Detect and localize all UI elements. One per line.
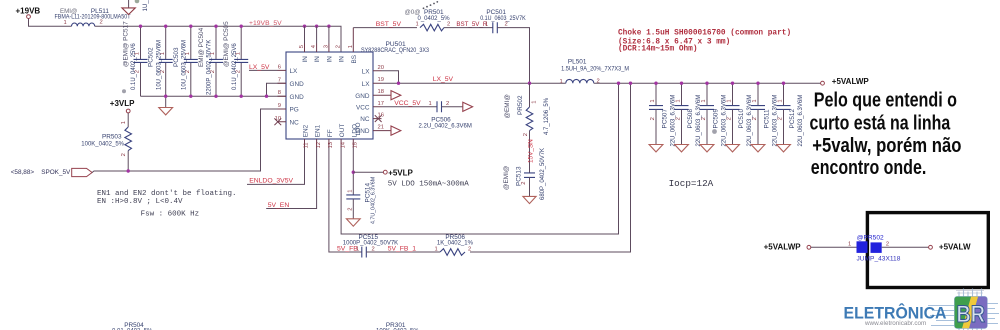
svg-text:GND: GND xyxy=(290,81,305,88)
svg-text:+5valw, porém não: +5valw, porém não xyxy=(812,135,961,157)
svg-text:2: 2 xyxy=(521,182,527,185)
pin names left LX GND GND PG NC xyxy=(290,68,305,126)
svg-text:18: 18 xyxy=(378,89,384,95)
svg-text:2: 2 xyxy=(752,117,758,120)
svg-text:PL501: PL501 xyxy=(568,59,587,66)
svg-text:@PR502: @PR502 xyxy=(857,235,884,242)
svg-text:1: 1 xyxy=(347,190,353,193)
note EN floating xyxy=(97,190,237,219)
svg-text:+5VALW: +5VALW xyxy=(939,243,971,252)
svg-text:0_0402_5%: 0_0402_5% xyxy=(418,16,451,22)
svg-text:PR501: PR501 xyxy=(424,9,444,16)
pin names bottom EN2 EN1 FF OUT LDO rotated xyxy=(303,124,359,138)
svg-text:GND: GND xyxy=(290,94,305,101)
svg-text:1: 1 xyxy=(676,99,682,102)
svg-text:1: 1 xyxy=(121,121,127,124)
svg-text:1: 1 xyxy=(727,99,733,102)
svg-text:PC510: PC510 xyxy=(738,109,745,129)
svg-text:+19VB: +19VB xyxy=(16,6,41,15)
right pin stubs 20,19,18,17,16,21 xyxy=(373,71,391,131)
svg-text:+3VLP: +3VLP xyxy=(110,99,135,108)
svg-text:2: 2 xyxy=(336,45,342,48)
svg-text:LX: LX xyxy=(362,68,371,75)
svg-text:2: 2 xyxy=(447,22,450,28)
svg-text:2.2U_0402_6.3V6M: 2.2U_0402_6.3V6M xyxy=(419,123,472,129)
junction BST / snubber xyxy=(528,82,531,85)
svg-text:Iocp=12A: Iocp=12A xyxy=(669,178,714,189)
no-connect X on pin 16 xyxy=(375,115,382,122)
ground arrow after PC506 xyxy=(463,102,473,111)
svg-text:2: 2 xyxy=(650,117,656,120)
gray dot artifact near +3VLP xyxy=(122,89,126,93)
pin numbers 6-10 xyxy=(275,64,281,121)
ground PC509 xyxy=(700,145,714,152)
power node +3VLP xyxy=(110,99,135,113)
power node +5VALWP (jumper left) xyxy=(764,243,811,252)
wire EN2 to ENLDO_3V5V xyxy=(247,148,305,185)
resistor PR502 (snubber) xyxy=(504,83,550,173)
svg-text:1: 1 xyxy=(752,99,758,102)
svg-text:1: 1 xyxy=(848,242,851,248)
svg-text:2: 2 xyxy=(468,247,471,253)
svg-text:ENLDO_3V5V: ENLDO_3V5V xyxy=(249,178,293,185)
wire IN pin drops from bus xyxy=(305,26,329,43)
svg-text:6: 6 xyxy=(278,64,281,70)
junction FB sense xyxy=(629,82,632,85)
svg-text:@EMI@: @EMI@ xyxy=(504,94,511,118)
svg-text:1: 1 xyxy=(778,99,784,102)
svg-text:EN1: EN1 xyxy=(315,124,322,137)
resistor PR501 xyxy=(416,9,451,31)
junction dots ground bus xyxy=(164,95,268,98)
svg-text:<58,88>: <58,88> xyxy=(11,169,35,176)
svg-text:10U_0603_25V6M: 10U_0603_25V6M xyxy=(182,40,188,90)
svg-text:1: 1 xyxy=(348,45,354,48)
svg-text:VCC_5V: VCC_5V xyxy=(394,100,421,107)
svg-text:5V_EN: 5V_EN xyxy=(268,202,290,209)
capacitor PC511 xyxy=(751,82,779,147)
capacitor PC514 xyxy=(346,177,376,224)
inductor PL511 xyxy=(55,8,131,26)
svg-text:1: 1 xyxy=(429,101,432,107)
svg-text:encontro onde.: encontro onde. xyxy=(811,157,927,179)
svg-text:NC: NC xyxy=(360,116,370,123)
wire +19VB_5V bus xyxy=(95,26,341,52)
svg-text:@EMI@ PC505: @EMI@ PC505 xyxy=(223,21,230,67)
svg-text:21: 21 xyxy=(378,125,384,131)
note Choke (red) xyxy=(618,29,791,53)
svg-text:PG: PG xyxy=(290,107,299,114)
resistor PR503 xyxy=(81,113,131,171)
svg-text:10: 10 xyxy=(275,116,281,122)
pin numbers right xyxy=(378,65,384,131)
svg-text:+5VLP: +5VLP xyxy=(388,168,413,177)
svg-text:PC502: PC502 xyxy=(148,47,155,67)
gray dot artifact top-left xyxy=(135,0,140,3)
svg-text:IN: IN xyxy=(339,56,346,63)
wire jumper to +5VALW xyxy=(882,246,929,248)
svg-text:FF: FF xyxy=(327,129,334,137)
svg-text:2200P_0402_50V7K: 2200P_0402_50V7K xyxy=(207,40,213,95)
svg-text:@EMI@ PC517: @EMI@ PC517 xyxy=(123,21,130,67)
svg-text:LX: LX xyxy=(362,81,371,88)
gray dot artifact near PC509 xyxy=(712,129,717,134)
no-connect X on pin 10 xyxy=(274,118,281,125)
svg-text:5: 5 xyxy=(299,45,305,48)
svg-text:1: 1 xyxy=(650,99,656,102)
svg-text:2: 2 xyxy=(505,22,508,28)
svg-text:1U_: 1U_ xyxy=(142,0,149,12)
svg-text:Choke 1.5uH SH000016700 (commo: Choke 1.5uH SH000016700 (common part) xyxy=(618,29,791,37)
capacitor PC508 xyxy=(675,82,703,147)
svg-text:LDO: LDO xyxy=(351,124,358,137)
svg-text:1K_0402_1%: 1K_0402_1% xyxy=(437,240,474,246)
svg-text:LX: LX xyxy=(290,68,299,75)
svg-text:1: 1 xyxy=(416,22,419,28)
ground PC512 xyxy=(777,145,791,152)
svg-text:680P_0402_50V7K: 680P_0402_50V7K xyxy=(540,148,546,200)
svg-text:Fsw : 600K Hz: Fsw : 600K Hz xyxy=(141,211,200,219)
wire PC501 to LX node xyxy=(497,28,529,84)
svg-text:2: 2 xyxy=(676,117,682,120)
svg-text:2: 2 xyxy=(886,242,889,248)
power node +19VB xyxy=(16,6,41,18)
left pin stubs 6,7,8,9,10 xyxy=(278,70,287,121)
svg-text:0.1U_0402_25V6: 0.1U_0402_25V6 xyxy=(232,43,238,90)
svg-text:PC508: PC508 xyxy=(687,109,694,129)
svg-text:1.5UH_9A_20%_7X7X3_M: 1.5UH_9A_20%_7X7X3_M xyxy=(561,66,629,72)
power node +5VALW xyxy=(929,243,971,252)
highlight box (black) xyxy=(867,213,988,288)
svg-text:20: 20 xyxy=(378,65,384,71)
svg-text:9: 9 xyxy=(278,103,281,109)
svg-text:2: 2 xyxy=(347,208,353,211)
svg-text:7: 7 xyxy=(278,77,281,83)
svg-text:15V_SN: 15V_SN xyxy=(528,139,535,163)
capacitor PC507 xyxy=(649,82,677,147)
wire LDO pin to +5VLP xyxy=(352,148,354,195)
svg-text:14: 14 xyxy=(340,141,346,148)
svg-text:LX_5V: LX_5V xyxy=(433,76,454,83)
top pin stubs IN,IN,IN,IN,BS xyxy=(305,28,354,52)
svg-text:2: 2 xyxy=(446,101,449,107)
capacitor PC501 xyxy=(480,9,526,33)
port SPOK_5V xyxy=(41,168,92,176)
wire LX pin 20 link xyxy=(382,71,399,83)
svg-text:JUMP_43X118: JUMP_43X118 xyxy=(857,255,901,262)
svg-text:5V LDO 150mA~300mA: 5V LDO 150mA~300mA xyxy=(388,180,470,188)
ground PC508 xyxy=(675,145,689,152)
wire FB sense drop xyxy=(470,83,631,252)
svg-text:PC512: PC512 xyxy=(789,109,796,129)
svg-text:PC503: PC503 xyxy=(173,47,180,67)
wire LX output line xyxy=(382,82,566,84)
svg-text:0.1U_0402_25V6: 0.1U_0402_25V6 xyxy=(131,43,137,90)
svg-text:EMI@ PC504: EMI@ PC504 xyxy=(198,27,205,67)
ground arrow pin 18 xyxy=(391,91,401,100)
svg-text:2: 2 xyxy=(100,19,103,25)
svg-text:1: 1 xyxy=(701,99,707,102)
svg-text:GND: GND xyxy=(355,93,370,100)
capacitor PC512 xyxy=(777,82,805,147)
svg-text:Pelo que entendi o: Pelo que entendi o xyxy=(814,89,957,111)
svg-text:SY8288CRAC_QFN20_3X3: SY8288CRAC_QFN20_3X3 xyxy=(361,47,429,54)
svg-text:1: 1 xyxy=(356,247,359,253)
wire SPOK_5V to PG xyxy=(92,109,277,173)
power node +5VALWP (top right) xyxy=(821,77,870,86)
capacitor PC502 xyxy=(148,26,173,96)
svg-text:PC511: PC511 xyxy=(764,109,771,129)
wire +19VB node to PL511 pin 1 xyxy=(29,19,72,27)
jumper PR502 pads xyxy=(848,235,901,263)
top-left partial circuit: wire to ground xyxy=(128,0,130,8)
capacitor PC505 xyxy=(223,21,248,96)
svg-text:2: 2 xyxy=(523,133,529,136)
svg-text:EN1 and EN2 dont't be floating: EN1 and EN2 dont't be floating. xyxy=(97,190,237,198)
wire ground bus under input caps xyxy=(141,95,287,97)
ground PC511 xyxy=(751,145,765,152)
wire VCC pin 17 to PC506 xyxy=(382,106,438,108)
svg-text:PC507: PC507 xyxy=(662,109,669,129)
annotation text (Portuguese) xyxy=(810,89,962,178)
capacitor PC517 xyxy=(123,21,148,96)
svg-text:NC: NC xyxy=(290,119,300,126)
svg-text:PC501: PC501 xyxy=(486,9,506,16)
wire EN1 to 5V_EN xyxy=(266,148,316,209)
svg-text:19: 19 xyxy=(378,77,384,83)
junction OUT sense xyxy=(617,82,620,85)
svg-text:+19VB_5V: +19VB_5V xyxy=(249,20,282,27)
svg-text:EN2: EN2 xyxy=(303,124,310,137)
svg-text:PR502: PR502 xyxy=(517,95,524,115)
wire +5VALWP to jumper xyxy=(811,246,857,248)
svg-text:100K_0402_5%: 100K_0402_5% xyxy=(81,141,124,147)
op-amp / regulator U PU501 body xyxy=(286,52,373,139)
ground (snubber) xyxy=(523,196,536,203)
svg-text:8: 8 xyxy=(278,90,281,96)
ground PC510 xyxy=(726,145,740,152)
bottom pin stubs 11-15 xyxy=(305,139,354,148)
svg-text:IN: IN xyxy=(314,56,321,63)
logo chip icon xyxy=(928,289,999,330)
capacitor PC513 xyxy=(503,148,546,200)
ground PC507 xyxy=(649,145,663,152)
svg-text:curto está na linha: curto está na linha xyxy=(810,113,951,135)
svg-text:1: 1 xyxy=(435,247,438,253)
svg-text:+5VALWP: +5VALWP xyxy=(764,243,802,252)
inductor PL501 xyxy=(560,59,630,85)
wire +5VALWP output bus xyxy=(594,82,821,84)
svg-text:4.7_1206_5%: 4.7_1206_5% xyxy=(544,97,550,135)
ground arrow pin 21 xyxy=(391,126,401,135)
pin names right LX LX GND VCC NC GND xyxy=(355,68,370,135)
wire LX_5V stub left of chip xyxy=(249,69,278,71)
svg-text:2: 2 xyxy=(727,117,733,120)
svg-text:VCC: VCC xyxy=(356,104,370,111)
svg-text:5V_FB_1: 5V_FB_1 xyxy=(388,245,417,252)
ground (input cap bank) xyxy=(159,96,173,115)
partial label PR301 (cut at bottom) xyxy=(376,322,419,330)
wire PR501 to PC501 xyxy=(444,27,493,29)
svg-text:OUT: OUT xyxy=(339,124,346,138)
svg-text:2: 2 xyxy=(778,117,784,120)
partial label PR504 (cut at bottom) xyxy=(112,322,153,330)
wire to +5VLP node xyxy=(353,171,383,173)
ground (top-left partial) xyxy=(122,8,135,15)
wire OUT sense drop xyxy=(341,83,618,234)
resistor PR506 xyxy=(435,234,474,255)
svg-text:(DCR:14m~15m Ohm): (DCR:14m~15m Ohm) xyxy=(618,46,698,54)
svg-text:BR: BR xyxy=(957,301,986,328)
svg-text:www.eletronicabr.com: www.eletronicabr.com xyxy=(864,320,926,327)
svg-text:17: 17 xyxy=(378,101,384,107)
junction PR503 / SPOK xyxy=(127,169,130,172)
svg-text:BS: BS xyxy=(351,55,358,64)
capacitor PC503 xyxy=(173,26,198,96)
logo text ELETRONICA BR xyxy=(844,301,986,328)
svg-text:1: 1 xyxy=(560,79,563,85)
svg-text:IN: IN xyxy=(326,56,333,63)
power node +5VLP xyxy=(383,168,413,177)
dotted leader line xyxy=(423,1,439,9)
svg-text:1: 1 xyxy=(532,101,538,104)
svg-text:SPOK_5V: SPOK_5V xyxy=(41,169,71,176)
wire BS pin to BST network xyxy=(353,27,417,29)
pin names IN IN IN IN BS xyxy=(302,55,358,64)
capacitor PC515 xyxy=(343,234,440,258)
svg-text:3: 3 xyxy=(323,45,329,48)
svg-text:IN: IN xyxy=(302,56,309,63)
svg-text:PC509: PC509 xyxy=(713,109,720,129)
svg-text:+5VALWP: +5VALWP xyxy=(832,77,870,86)
svg-text:PR503: PR503 xyxy=(102,134,122,141)
ground PC514 xyxy=(346,219,360,226)
wire chip GND pin7 link xyxy=(267,83,287,96)
capacitor PC504 xyxy=(198,26,223,96)
svg-text:1: 1 xyxy=(485,22,488,28)
svg-text:4.7U_0402_6.3V6M: 4.7U_0402_6.3V6M xyxy=(371,177,377,224)
junction dots +19VB_5V bus xyxy=(139,25,331,28)
pin numbers 11-15 rotated xyxy=(304,141,359,148)
svg-text:2: 2 xyxy=(121,153,127,156)
svg-text:10U_0603_25V6M: 10U_0603_25V6M xyxy=(156,40,162,90)
capacitor PC510 xyxy=(726,82,754,147)
svg-text:LX_5V: LX_5V xyxy=(249,64,270,71)
capacitor PC509 xyxy=(700,82,728,147)
capacitor PC506 xyxy=(419,101,472,130)
wire FF to 5V_FB line xyxy=(329,148,362,253)
svg-text:2: 2 xyxy=(701,117,707,120)
junction LX pin20 xyxy=(397,82,400,85)
svg-text:1: 1 xyxy=(64,20,67,26)
svg-text:EN :H>0.8V ; L<0.4V: EN :H>0.8V ; L<0.4V xyxy=(97,198,183,206)
svg-text:22U_0603_6.3V6M: 22U_0603_6.3V6M xyxy=(798,95,804,147)
svg-text:@EMI@: @EMI@ xyxy=(503,166,510,190)
junction +5VLP xyxy=(352,171,355,174)
svg-text:BST_5V: BST_5V xyxy=(376,21,402,28)
